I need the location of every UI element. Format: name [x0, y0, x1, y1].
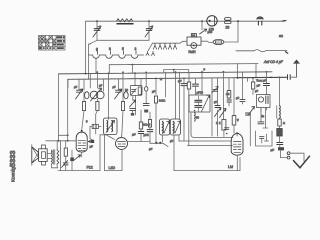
wire selector to fuse — [201, 41, 213, 42]
plug P1 (mains plug) — [257, 17, 263, 19]
trimmer C25 — [213, 89, 218, 91]
node top B — [148, 20, 150, 22]
svg-text:26: 26 — [226, 26, 230, 30]
resistor R6 — [154, 96, 157, 103]
svg-text:Ω: Ω — [160, 77, 162, 81]
resistor R11 — [251, 82, 254, 89]
capacitor C18 dark — [70, 158, 74, 162]
IF can A — [104, 118, 118, 135]
svg-text:µF: µF — [257, 84, 261, 88]
svg-text:Auf CD 4 µF: Auf CD 4 µF — [263, 60, 284, 64]
trimmer cluster C5 — [77, 90, 82, 92]
cathode lead and arrow below V1 — [81, 152, 83, 157]
capacitor C17 — [277, 143, 283, 145]
wire top horizontal rail — [86, 20, 285, 22]
capacitor C11 — [215, 106, 220, 108]
svg-text:1MΩ: 1MΩ — [159, 99, 166, 103]
frame U2 — [174, 135, 240, 171]
capacitor C9 — [183, 78, 185, 83]
svg-text:an: an — [279, 34, 283, 38]
svg-text:µF5: µF5 — [144, 133, 150, 137]
svg-text:8: 8 — [109, 47, 111, 51]
resistor R12 — [279, 117, 281, 120]
resistor R13 — [64, 148, 67, 156]
table X marks — [39, 36, 56, 46]
trimmer cluster C7 — [116, 90, 121, 92]
resistor R4 — [96, 102, 99, 111]
arrow AGC — [248, 107, 255, 116]
trimmer C15 — [246, 113, 251, 115]
resistor R3 — [83, 92, 85, 102]
svg-text:2Ω+6: 2Ω+6 — [143, 123, 151, 127]
arrow up (antenna pointer) — [296, 63, 298, 77]
svg-text:26: 26 — [192, 34, 196, 38]
capacitor C10 — [195, 78, 197, 84]
resistor R1 top (zigzag with thick underline) — [117, 19, 133, 22]
svg-text:g: g — [96, 47, 98, 51]
table band switch — [39, 36, 66, 51]
value labels scattered — [74, 68, 285, 143]
svg-text:F12: F12 — [87, 166, 93, 170]
coil tap line (scalloped switch bar) — [89, 55, 144, 58]
switch contacts Y row — [153, 42, 177, 44]
capacitor trimmer C1 — [96, 21, 98, 28]
wire — [263, 108, 268, 129]
resistor R16 horizontal — [92, 124, 98, 128]
wire contacts to selector lamp — [177, 41, 188, 43]
svg-text:µF: µF — [214, 100, 217, 104]
wire bridge above bus B — [164, 70, 189, 72]
svg-text:µF: µF — [132, 133, 136, 137]
frame under amp (bottom left box) — [72, 135, 100, 171]
capacitor C14 — [264, 84, 270, 86]
svg-text:5: 5 — [122, 47, 124, 51]
transformer box T1 (voltage selector) — [187, 37, 201, 45]
svg-text:ReiH: ReiH — [189, 50, 197, 54]
resistor R10 — [233, 78, 235, 115]
capacitor trimmer C2 — [148, 21, 150, 28]
variable capacitor C6 (double circle) — [90, 91, 98, 99]
capacitor C17 electrolytic dark — [278, 147, 284, 150]
svg-text:µF: µF — [113, 85, 116, 89]
svg-text:µF50: µF50 — [197, 91, 204, 95]
junction cluster near V2 — [155, 142, 157, 144]
wire vertical drop right of lamp — [237, 21, 239, 42]
svg-text:µF: µF — [90, 145, 94, 149]
svg-text:µF: µF — [74, 85, 77, 89]
resistor R14 — [149, 112, 151, 120]
svg-text:µF: µF — [236, 96, 239, 100]
svg-text:µF: µF — [99, 84, 102, 88]
resistor R5 — [122, 93, 124, 102]
coil left drop — [89, 44, 91, 79]
svg-text:µ50: µ50 — [208, 30, 213, 34]
svg-text:Trox µF: Trox µF — [256, 79, 266, 83]
tap ticks with labels — [98, 51, 137, 55]
switch contacts Y pair — [146, 51, 155, 55]
svg-text:Ω6: Ω6 — [226, 92, 230, 96]
svg-text:4µ: 4µ — [261, 114, 264, 118]
capacitor C23 — [242, 72, 244, 99]
svg-text:3: 3 — [135, 47, 137, 51]
trimmer C12 — [215, 108, 222, 117]
tube V3 (output, oval) — [231, 134, 243, 156]
capacitor C16 electrolytic — [279, 126, 281, 129]
IF can B double — [160, 119, 170, 135]
wire AGC drop — [249, 112, 251, 146]
tube V2 (round) — [116, 138, 128, 150]
padder box L2 — [130, 86, 142, 96]
svg-text:µF: µF — [178, 79, 182, 83]
capacitor C21 — [147, 130, 153, 132]
capacitor C13 small — [225, 128, 230, 130]
Koenig 5333 label — [8, 151, 17, 182]
vertical wire drops from buses — [78, 79, 80, 90]
svg-text:Z: Z — [216, 121, 218, 125]
svg-text:µF: µF — [152, 90, 155, 94]
coil L3 vertical — [279, 106, 282, 119]
pickup arrow (big V) — [294, 156, 310, 168]
svg-text:ff: ff — [237, 118, 239, 122]
wire mains run with switch S2 — [236, 50, 287, 52]
shield box output — [256, 131, 273, 146]
terminal circles — [287, 156, 290, 159]
bus C (chassis rail) — [68, 78, 237, 80]
switch S1 arrow — [201, 21, 203, 30]
resistor R8 vertical — [222, 120, 226, 131]
speaker LS — [32, 147, 39, 163]
bus A (screen rail) — [109, 64, 258, 65]
capacitor C24 with arrow to V1 grid — [90, 126, 92, 139]
bus B (HT rail) — [59, 72, 273, 74]
node top C — [201, 20, 203, 22]
svg-text:L3D: L3D — [109, 166, 116, 170]
svg-text:µF: µF — [255, 89, 258, 93]
transformer T2 output — [51, 150, 54, 164]
svg-text:µF: µF — [170, 139, 173, 143]
svg-text:Ω: Ω — [283, 121, 285, 125]
trimmer C8b — [132, 95, 134, 100]
tube V2 bottom lead — [121, 149, 123, 151]
wire to terminals — [280, 150, 286, 157]
wire IF A to V2 — [100, 135, 115, 140]
resistor R15 — [140, 110, 142, 122]
wires left body — [58, 74, 60, 135]
wire fuse to drop — [224, 41, 238, 43]
capacitor C20 on bus C right — [288, 75, 291, 80]
fuse F2 oval — [213, 39, 224, 44]
tube V1 (oval with grid dashes) — [76, 132, 87, 152]
svg-text:+: + — [100, 24, 102, 28]
svg-text:µF: µF — [271, 148, 275, 152]
coil tap drop to bus — [95, 58, 97, 73]
svg-text:LM: LM — [228, 165, 233, 169]
detector box with capacitors — [189, 95, 210, 112]
svg-text:+: + — [152, 24, 154, 28]
node top A — [96, 20, 98, 22]
resistor R7 — [188, 72, 190, 82]
frame U1 — [105, 135, 123, 171]
coil L5 — [194, 113, 197, 122]
svg-text:Koenig: Koenig — [10, 167, 16, 182]
resistor R9 — [228, 90, 230, 92]
lamp circle on selector — [191, 43, 197, 49]
svg-text:µF: µF — [149, 147, 153, 151]
wire to pickup arrow — [290, 153, 304, 161]
fuse F1 — [225, 18, 231, 21]
svg-text:5333: 5333 — [8, 151, 17, 167]
capacitor C8 — [145, 72, 147, 86]
shield box lines right of IF cans — [178, 135, 180, 141]
table cell fills — [39, 36, 65, 49]
diode detector cluster — [257, 95, 271, 108]
wire left outer drop — [85, 21, 87, 73]
capacitor C22 — [260, 108, 262, 122]
tube V3 cathode lead — [236, 155, 238, 170]
lamp U1 (dial lamp circle) — [207, 16, 217, 26]
capacitor C19 — [63, 163, 68, 165]
wire top right tick — [282, 19, 286, 22]
wire — [164, 72, 166, 97]
junction dots on buses — [85, 71, 281, 80]
